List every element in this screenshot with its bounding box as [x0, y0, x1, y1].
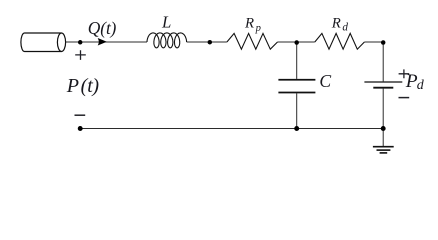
svg-text:P: P [66, 75, 79, 97]
svg-text:L: L [161, 13, 171, 32]
svg-text:): ) [110, 18, 117, 38]
svg-text:): ) [91, 75, 99, 97]
svg-text:C: C [319, 71, 331, 91]
svg-text:d: d [342, 22, 348, 34]
svg-text:R: R [244, 16, 254, 32]
svg-text:R: R [331, 16, 341, 32]
svg-text:Q: Q [88, 18, 101, 38]
svg-text:p: p [255, 23, 261, 34]
svg-text:d: d [417, 78, 425, 93]
